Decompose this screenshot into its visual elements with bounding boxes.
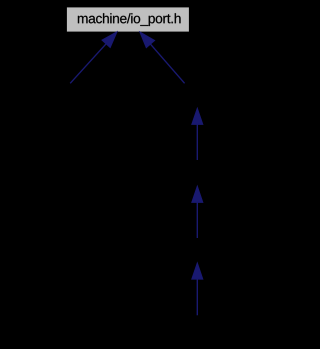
edge arrow device/keyboard.h -> machine/keyctrl.h [192,108,203,160]
edge arrow guard/keyepilogue.h -> device/keyboard.h [192,186,203,238]
node machine/io_port.h (highlighted) [67,7,189,31]
edge arrow machine/cgascr.cc -> machine/io_port.h [70,32,117,84]
node device/keyboard.h (invisible) [147,160,247,186]
node machine/cgascr.cc (invisible) [20,84,120,109]
edge arrow machine/keyctrl.h -> machine/io_port.h [140,32,185,83]
node machine/keyctrl.h (invisible) [147,84,247,109]
node guard/keyepilogue.cc (invisible) [147,315,247,341]
edge arrow guard/keyepilogue.cc -> guard/keyepilogue.h [192,263,203,315]
node guard/keyepilogue.h (invisible) [147,238,247,263]
